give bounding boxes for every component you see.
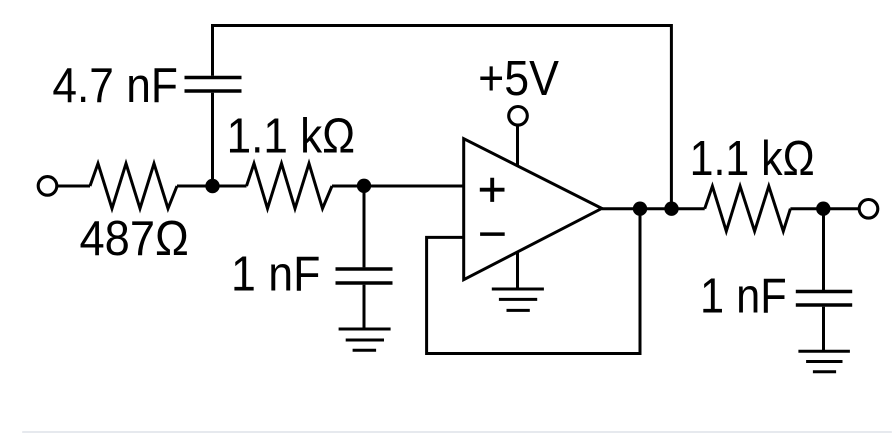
input terminal — [38, 177, 57, 196]
wire input to R1 — [57, 185, 90, 188]
resistor R3 1.1 kohm — [705, 186, 791, 231]
node C (feedback tap) — [633, 202, 647, 216]
svg-text:1.1 kΩ: 1.1 kΩ — [227, 110, 356, 164]
svg-text:1 nF: 1 nF — [231, 248, 320, 302]
wire C1 to ground — [363, 285, 366, 329]
ground below C3 — [798, 351, 850, 372]
+5V supply terminal — [509, 107, 528, 126]
ground below C1 — [339, 329, 391, 350]
output terminal — [859, 200, 878, 219]
capacitor C1 1 nF — [336, 269, 393, 283]
wire node A up to C2 — [211, 93, 214, 186]
wire +5V to op-amp supply pin — [516, 127, 519, 167]
svg-text:1 nF: 1 nF — [700, 270, 787, 324]
wire node E down to C3 — [822, 209, 825, 290]
op-amp minus symbol (inverting input) — [480, 232, 505, 236]
wire op-amp output to R3 — [602, 207, 705, 210]
wire C2 up to top feedback rail — [211, 26, 214, 76]
wire R1 to R2 through node A — [177, 185, 247, 188]
wire R2 to op-amp non-inverting input through node B — [332, 185, 464, 188]
resistor R1 487 ohm — [90, 164, 177, 209]
ground below op-amp — [492, 289, 544, 310]
svg-text:+5V: +5V — [478, 52, 559, 106]
top feedback wire — [211, 26, 671, 209]
capacitor C3 1 nF — [796, 292, 852, 306]
op-amp U1 — [464, 139, 602, 280]
node A — [205, 179, 219, 193]
wire C3 to ground — [822, 307, 825, 352]
resistor R2 1.1 kohm — [247, 164, 333, 209]
svg-text:1.1 kΩ: 1.1 kΩ — [690, 132, 815, 186]
footer divider line — [22, 431, 892, 433]
op-amp plus symbol (non-inverting input) — [480, 178, 505, 202]
wire op-amp to ground — [516, 252, 519, 289]
node B — [357, 179, 371, 193]
node D (top feedback tap) — [664, 202, 678, 216]
wire node B down to C1 — [363, 186, 366, 267]
node E — [816, 202, 830, 216]
wire R3 to output terminal through node E — [790, 207, 858, 210]
svg-text:487Ω: 487Ω — [80, 212, 189, 266]
svg-text:4.7 nF: 4.7 nF — [52, 59, 177, 113]
feedback wire from inverting input to output node — [427, 209, 640, 354]
capacitor C2 4.7 nF — [185, 78, 242, 92]
